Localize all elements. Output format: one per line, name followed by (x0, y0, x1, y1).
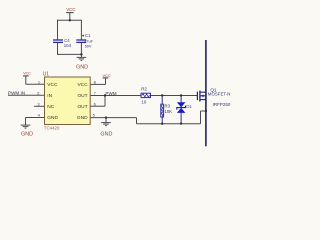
svg-text:50V: 50V (85, 45, 92, 49)
svg-text:C1: C1 (85, 33, 91, 38)
svg-text:D1: D1 (186, 104, 192, 109)
svg-text:VCC: VCC (23, 72, 31, 76)
svg-text:TC4420: TC4420 (44, 126, 60, 131)
svg-text:OUT: OUT (77, 93, 87, 99)
svg-text:VCC: VCC (66, 7, 75, 12)
svg-text:U1: U1 (43, 72, 50, 78)
svg-text:VCC: VCC (103, 73, 111, 78)
svg-text:GND: GND (21, 132, 33, 138)
svg-text:PWM IN: PWM IN (8, 91, 25, 96)
svg-text:VCC: VCC (77, 82, 88, 88)
svg-text:PWM: PWM (105, 91, 116, 96)
svg-text:IN: IN (47, 93, 52, 99)
svg-text:10K: 10K (165, 109, 173, 114)
svg-text:IRFP250: IRFP250 (213, 102, 231, 107)
svg-text:10: 10 (141, 99, 146, 104)
svg-text:NC: NC (47, 104, 54, 110)
svg-text:MOSFET-N: MOSFET-N (208, 91, 231, 96)
svg-text:104: 104 (64, 43, 72, 48)
svg-text:GND: GND (77, 115, 88, 121)
svg-text:VCC: VCC (47, 82, 58, 88)
svg-text:47uF: 47uF (84, 40, 93, 44)
svg-text:GND: GND (76, 64, 88, 70)
svg-text:R2: R2 (141, 87, 147, 92)
svg-text:GND: GND (100, 131, 112, 137)
svg-text:R3: R3 (165, 104, 171, 109)
svg-text:GND: GND (47, 115, 58, 121)
svg-text:OUT: OUT (77, 104, 87, 110)
